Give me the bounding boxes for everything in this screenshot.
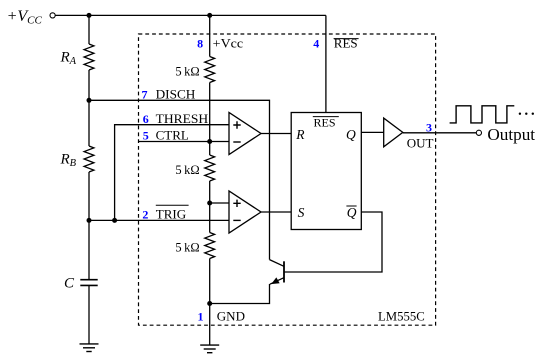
svg-text:TRIG: TRIG xyxy=(156,207,186,222)
svg-text:7: 7 xyxy=(142,87,148,101)
svg-text:5 kΩ: 5 kΩ xyxy=(175,163,199,177)
svg-text:4: 4 xyxy=(313,36,319,50)
svg-text:5 kΩ: 5 kΩ xyxy=(175,64,199,78)
svg-text:OUT: OUT xyxy=(407,135,434,150)
svg-text:S: S xyxy=(298,205,305,220)
svg-text:3: 3 xyxy=(426,120,432,134)
svg-text:Q: Q xyxy=(346,127,356,142)
svg-text:5: 5 xyxy=(143,129,149,143)
svg-text:THRESH: THRESH xyxy=(156,111,209,126)
svg-text:6: 6 xyxy=(143,112,149,126)
svg-text:RES: RES xyxy=(314,116,336,130)
svg-text:R: R xyxy=(295,127,305,142)
svg-text:1: 1 xyxy=(198,310,204,324)
svg-text:GND: GND xyxy=(217,309,245,324)
svg-text:5 kΩ: 5 kΩ xyxy=(175,240,199,254)
svg-text:CTRL: CTRL xyxy=(156,128,189,143)
svg-text:LM555C: LM555C xyxy=(378,309,425,324)
svg-text:+Vcc: +Vcc xyxy=(213,35,244,50)
svg-text:2: 2 xyxy=(142,208,148,222)
svg-text:RES: RES xyxy=(334,35,358,50)
svg-text:8: 8 xyxy=(197,36,203,50)
svg-text:C: C xyxy=(64,276,75,292)
svg-text:Output: Output xyxy=(487,125,535,144)
svg-text:Q: Q xyxy=(347,205,357,220)
svg-text:DISCH: DISCH xyxy=(156,86,196,101)
